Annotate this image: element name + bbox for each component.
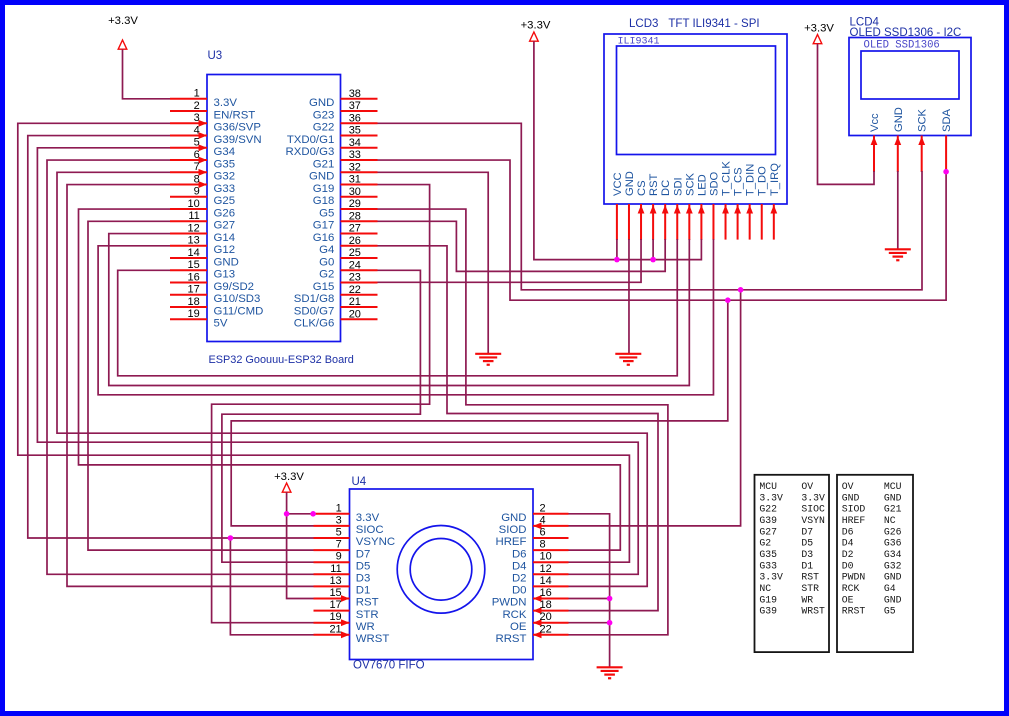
svg-text:D6: D6 <box>512 548 527 560</box>
svg-text:SIOD: SIOD <box>842 504 866 515</box>
svg-text:GND: GND <box>501 512 526 524</box>
svg-text:G19: G19 <box>313 183 335 195</box>
svg-text:G5: G5 <box>884 606 896 617</box>
svg-text:31: 31 <box>349 174 361 186</box>
svg-text:OV7670 FIFO: OV7670 FIFO <box>353 660 425 672</box>
svg-text:23: 23 <box>349 272 361 284</box>
svg-text:6: 6 <box>540 527 546 539</box>
U3 pin 18 G11/CMD <box>170 296 263 317</box>
svg-text:G27: G27 <box>214 220 236 232</box>
svg-text:36: 36 <box>349 112 361 124</box>
U3 pin 16 G9/SD2 <box>170 271 254 292</box>
svg-text:2: 2 <box>194 100 200 112</box>
svg-text:13: 13 <box>188 235 200 247</box>
U4 pin 20 OE <box>510 611 568 633</box>
wire G35 (U3 pin6) to U4 D3 <box>47 160 314 574</box>
U4 pin 7 D7 <box>314 539 371 561</box>
U3 pin 9 G25 <box>170 186 235 207</box>
svg-text:12: 12 <box>540 563 552 575</box>
svg-text:G17: G17 <box>313 220 335 232</box>
wire U3 pin32 GND to ground <box>378 172 489 353</box>
svg-text:SD0/G7: SD0/G7 <box>294 305 335 317</box>
svg-text:6: 6 <box>194 149 200 161</box>
U3 pin 25 G0 <box>319 247 377 268</box>
svg-text:RXD0/G3: RXD0/G3 <box>286 146 335 158</box>
U3 pin 11 G27 <box>170 210 235 231</box>
svg-text:DC: DC <box>660 180 672 196</box>
svg-text:3: 3 <box>194 112 200 124</box>
svg-text:30: 30 <box>349 186 361 198</box>
svg-text:G33: G33 <box>759 560 777 571</box>
junction rail at LCD3 RST <box>650 257 656 263</box>
svg-text:G10/SD3: G10/SD3 <box>214 293 261 305</box>
LCD3 reference designator and title <box>629 18 760 30</box>
LCD3 pin DC <box>660 180 672 240</box>
svg-text:NC: NC <box>759 583 771 594</box>
LCD3 pin LED <box>696 174 708 240</box>
ground symbol (LCD3 GND) <box>615 354 641 365</box>
svg-text:GND: GND <box>624 171 636 196</box>
U3 pin 6 G35 <box>170 149 235 170</box>
svg-text:RCK: RCK <box>842 583 860 594</box>
wire G13 (U3 pin15) to LCD3 SDI <box>118 239 678 376</box>
power symbol +3.3V (LCD4 rail) <box>804 23 834 44</box>
svg-text:MCU: MCU <box>759 481 777 492</box>
svg-text:33: 33 <box>349 149 361 161</box>
U4 value label OV7670 FIFO <box>353 660 425 672</box>
svg-text:G33: G33 <box>214 183 236 195</box>
svg-text:WRST: WRST <box>356 633 390 645</box>
svg-text:D3: D3 <box>801 549 813 560</box>
U4 pin 12 D2 <box>512 563 569 585</box>
U3 pin 27 G16 <box>313 223 378 244</box>
svg-text:26: 26 <box>349 235 361 247</box>
wire +3.3V to U3 pin 1 <box>123 49 171 99</box>
svg-text:GND: GND <box>214 256 239 268</box>
svg-text:18: 18 <box>540 599 552 611</box>
svg-text:Vcc: Vcc <box>869 113 881 132</box>
display LCD4 OLED SSD1306 body <box>849 38 971 136</box>
svg-text:22: 22 <box>349 284 361 296</box>
wire G12 (U3 pin13) to LCD3 SDO <box>98 239 713 395</box>
wire G14 (U3 pin12) to LCD3 SCK <box>109 234 690 386</box>
svg-text:WRST: WRST <box>801 606 825 617</box>
svg-text:G13: G13 <box>214 269 236 281</box>
U4 pin 15 RST <box>314 587 379 609</box>
svg-text:3.3V: 3.3V <box>801 492 825 503</box>
wire G19 (U3 pin31) to U4 WR <box>212 185 430 623</box>
wire G22 (U3 pin36) to LCD4 SCK <box>378 123 923 289</box>
svg-text:RST: RST <box>648 173 660 196</box>
svg-text:+3.3V: +3.3V <box>108 15 138 27</box>
U4 pin 14 D0 <box>512 575 569 597</box>
svg-text:MCU: MCU <box>884 481 902 492</box>
U3 pin 26 G4 <box>319 235 377 256</box>
U4 pin 11 D3 <box>314 563 371 585</box>
LCD3 footprint label ILI9341 <box>618 37 660 48</box>
svg-text:D3: D3 <box>356 573 371 585</box>
svg-text:3.3V: 3.3V <box>759 572 783 583</box>
svg-text:20: 20 <box>349 308 361 320</box>
svg-text:OV: OV <box>842 481 854 492</box>
svg-text:5: 5 <box>336 527 342 539</box>
U3 pin 38 GND <box>309 88 378 109</box>
LCD3 pin CS <box>636 180 648 240</box>
wire G17 (U3 pin28) to LCD3 DC <box>378 221 666 271</box>
svg-text:G4: G4 <box>884 583 896 594</box>
svg-text:G39: G39 <box>759 606 777 617</box>
svg-text:G21: G21 <box>884 504 902 515</box>
svg-text:RST: RST <box>356 597 379 609</box>
U3 pin 17 G10/SD3 <box>170 284 260 305</box>
svg-text:OE: OE <box>842 594 854 605</box>
LCD4 pin SCK <box>917 108 929 172</box>
svg-text:PWDN: PWDN <box>842 572 866 583</box>
wire LCD3 VCC stub to rail <box>616 239 618 260</box>
svg-text:12: 12 <box>188 222 200 234</box>
svg-text:GND: GND <box>309 97 334 109</box>
junction U4 pin1 stub <box>310 511 316 517</box>
wire G32 (U3 pin7) to U4 D0 <box>57 172 647 586</box>
U3 value label ESP32 Goouuu-ESP32 Board <box>209 354 354 366</box>
U4 pin 6 HREF <box>495 527 568 549</box>
svg-text:G34: G34 <box>884 549 902 560</box>
svg-text:29: 29 <box>349 198 361 210</box>
U4 pin 19 WR <box>314 611 375 633</box>
LCD4 reference designator and title <box>850 17 962 40</box>
U3 pin 19 5V <box>170 308 228 329</box>
svg-text:32: 32 <box>349 161 361 173</box>
U3 pin 14 GND <box>170 247 239 268</box>
U4 pin 16 PWDN <box>492 587 569 609</box>
U4 pin 18 RCK <box>502 599 568 621</box>
svg-text:19: 19 <box>188 308 200 320</box>
svg-text:U3: U3 <box>208 50 223 62</box>
svg-text:17: 17 <box>188 284 200 296</box>
svg-text:G39: G39 <box>759 515 777 526</box>
svg-text:RRST: RRST <box>495 633 526 645</box>
svg-text:SIOC: SIOC <box>356 524 384 536</box>
svg-text:D1: D1 <box>356 585 371 597</box>
LCD3 pin SDI <box>672 177 684 240</box>
svg-text:GND: GND <box>884 492 902 503</box>
wire G15 (U3 pin23) to LCD3 CS <box>378 239 642 282</box>
svg-text:21: 21 <box>349 296 361 308</box>
wire +3.3V to U4 3.3V and RST <box>287 492 314 598</box>
svg-text:U4: U4 <box>352 476 367 488</box>
svg-text:27: 27 <box>349 223 361 235</box>
ground symbol (U3 GND) <box>475 354 501 365</box>
svg-text:2: 2 <box>540 502 546 514</box>
junction G21 line to SIOC <box>725 297 731 303</box>
LCD4 pin GND <box>893 107 905 172</box>
U3 pin 5 G34 <box>170 137 235 158</box>
svg-text:13: 13 <box>329 575 341 587</box>
svg-text:G27: G27 <box>759 526 777 537</box>
svg-text:CS: CS <box>636 180 648 196</box>
LCD4 pin SDA <box>941 108 953 171</box>
svg-text:SDO: SDO <box>708 171 720 196</box>
svg-text:D7: D7 <box>356 548 371 560</box>
svg-text:19: 19 <box>329 611 341 623</box>
svg-text:D6: D6 <box>842 526 854 537</box>
wire LCD4 GND to ground <box>897 171 899 249</box>
svg-text:8: 8 <box>540 539 546 551</box>
svg-text:VSYN: VSYN <box>801 515 825 526</box>
svg-text:G39/SVN: G39/SVN <box>214 134 262 146</box>
svg-text:PWDN: PWDN <box>492 597 527 609</box>
svg-text:G4: G4 <box>319 244 334 256</box>
svg-text:G35: G35 <box>759 549 777 560</box>
U3 pin 13 G12 <box>170 235 235 256</box>
svg-text:T_CS: T_CS <box>733 167 745 196</box>
svg-text:1: 1 <box>336 502 342 514</box>
U3 pin 21 SD0/G7 <box>294 296 378 317</box>
svg-text:G12: G12 <box>214 244 236 256</box>
svg-text:SDI: SDI <box>672 177 684 196</box>
U3 pin 2 EN/RST <box>170 100 255 121</box>
svg-text:G19: G19 <box>759 594 777 605</box>
svg-text:25: 25 <box>349 247 361 259</box>
wire G5 (U3 pin29) to U4 RRST <box>378 209 668 635</box>
wire G21 (U3 pin33) to LCD4 SDA <box>378 160 947 300</box>
table OV-MCU pin map (right) <box>837 475 913 652</box>
svg-text:3.3V: 3.3V <box>214 97 238 109</box>
LCD3 pin SCK <box>684 172 696 240</box>
U3 pin 29 G5 <box>319 198 377 219</box>
U4 camera lens circles <box>397 526 485 614</box>
svg-text:ILI9341: ILI9341 <box>618 37 660 48</box>
svg-text:G18: G18 <box>313 195 335 207</box>
wire LCD3 GND to ground <box>628 239 630 354</box>
svg-text:HREF: HREF <box>495 536 526 548</box>
svg-text:G32: G32 <box>884 560 902 571</box>
svg-text:EN/RST: EN/RST <box>214 109 256 121</box>
wire branch G39 to U4 WRST <box>230 538 313 635</box>
LCD4 footprint label OLED SSD1306 <box>864 40 940 52</box>
svg-text:35: 35 <box>349 125 361 137</box>
svg-text:SD1/G8: SD1/G8 <box>294 293 335 305</box>
U4 pin 22 RRST <box>495 623 568 645</box>
svg-text:15: 15 <box>188 259 200 271</box>
U4 pin 2 GND <box>501 502 568 524</box>
svg-text:GND: GND <box>884 594 902 605</box>
U4 pin 17 STR <box>314 599 379 621</box>
svg-text:G21: G21 <box>313 158 335 170</box>
svg-text:OLED SSD1306: OLED SSD1306 <box>864 40 940 52</box>
svg-text:G34: G34 <box>214 146 236 158</box>
U3 pin 36 G22 <box>313 112 378 133</box>
svg-text:SCK: SCK <box>917 108 929 132</box>
svg-text:ESP32 Goouuu-ESP32 Board: ESP32 Goouuu-ESP32 Board <box>209 354 354 366</box>
svg-text:1: 1 <box>194 88 200 100</box>
svg-text:10: 10 <box>188 198 200 210</box>
U4 pin 3 SIOC <box>314 514 384 536</box>
U3 pin 33 G21 <box>313 149 378 170</box>
svg-text:D0: D0 <box>512 585 527 597</box>
wire G33 (U3 pin8) to U4 D1 <box>67 185 314 587</box>
svg-text:T_DO: T_DO <box>757 166 769 196</box>
svg-text:11: 11 <box>188 210 199 222</box>
svg-text:G14: G14 <box>214 232 236 244</box>
junction GND at OE <box>607 620 613 626</box>
wire G4 (U3 pin26) to U4 RCK <box>378 246 659 611</box>
svg-text:NC: NC <box>884 515 896 526</box>
svg-text:G2: G2 <box>319 269 334 281</box>
svg-text:D5: D5 <box>801 538 813 549</box>
junction G22 line to SIOD <box>738 287 744 293</box>
U4 pin 9 D5 <box>314 551 371 573</box>
svg-text:STR: STR <box>801 583 819 594</box>
svg-text:OLED SSD1306 - I2C: OLED SSD1306 - I2C <box>850 27 962 39</box>
svg-text:TFT ILI9341 - SPI: TFT ILI9341 - SPI <box>668 18 759 30</box>
U3 pin 20 CLK/G6 <box>294 308 378 329</box>
power symbol +3.3V (LCD3 rail) <box>521 20 551 42</box>
svg-text:11: 11 <box>330 563 341 575</box>
junction G39/VSYN/WRST <box>228 535 234 541</box>
U4 pin 10 D4 <box>512 551 569 573</box>
LCD4 pin Vcc <box>869 113 881 172</box>
LCD3 pin GND <box>624 171 636 240</box>
svg-text:24: 24 <box>349 259 361 271</box>
svg-text:G23: G23 <box>313 109 335 121</box>
svg-text:G36: G36 <box>884 538 902 549</box>
svg-text:20: 20 <box>540 611 552 623</box>
svg-text:22: 22 <box>540 623 552 635</box>
svg-text:4: 4 <box>194 124 200 136</box>
svg-text:4: 4 <box>540 514 546 526</box>
svg-text:RRST: RRST <box>842 606 866 617</box>
LCD3 pin T_DIN <box>745 164 757 240</box>
svg-text:G16: G16 <box>313 232 335 244</box>
junction LCD4 SDA <box>943 169 949 175</box>
svg-text:16: 16 <box>188 271 200 283</box>
power symbol +3.3V (U4 rail) <box>274 471 304 492</box>
LCD3 pin T_CLK <box>721 161 733 240</box>
junction GND at PWDN <box>607 596 613 602</box>
svg-text:G15: G15 <box>313 281 335 293</box>
svg-text:G9/SD2: G9/SD2 <box>214 281 255 293</box>
U4 pin 1 3.3V <box>314 502 380 524</box>
U3 pin 30 G18 <box>313 186 378 207</box>
svg-text:VCC: VCC <box>612 172 624 196</box>
svg-text:RST: RST <box>801 572 819 583</box>
LCD3 pin SDO <box>708 171 720 240</box>
svg-text:37: 37 <box>349 100 361 112</box>
svg-text:D7: D7 <box>801 526 813 537</box>
U3 pin 32 GND <box>309 161 378 182</box>
svg-text:LED: LED <box>696 174 708 196</box>
LCD3 pin RST <box>648 173 660 240</box>
svg-text:TXD0/G1: TXD0/G1 <box>287 134 334 146</box>
U3 pin 22 SD1/G8 <box>294 284 378 305</box>
wire G2 (U3 pin24) to U4 D5 <box>222 270 421 562</box>
svg-text:17: 17 <box>329 599 341 611</box>
svg-text:5V: 5V <box>214 318 228 330</box>
U3 pin 12 G14 <box>170 222 235 243</box>
svg-text:9: 9 <box>194 186 200 198</box>
U3 pin 1 3.3V <box>170 88 237 109</box>
U3 pin 35 TXD0/G1 <box>287 125 378 146</box>
svg-text:34: 34 <box>349 137 361 149</box>
IC U3 ESP32 module body <box>207 75 341 342</box>
svg-text:G26: G26 <box>214 207 236 219</box>
svg-text:+3.3V: +3.3V <box>804 23 834 35</box>
wire branch G21 line to U4 SIOC <box>231 300 728 526</box>
svg-text:VSYNC: VSYNC <box>356 536 395 548</box>
svg-text:38: 38 <box>349 88 361 100</box>
svg-text:14: 14 <box>540 575 552 587</box>
svg-text:21: 21 <box>329 623 341 635</box>
wire G39 (U3 pin4) to U4 VSYNC <box>28 136 314 538</box>
U3 pin 23 G15 <box>313 272 378 293</box>
svg-text:STR: STR <box>356 609 379 621</box>
U3 pin 31 G19 <box>313 174 378 195</box>
svg-text:14: 14 <box>188 247 200 259</box>
U3 pin 24 G2 <box>319 259 377 280</box>
wire branch G22 line to U4 SIOD <box>569 290 741 526</box>
display LCD3 TFT ILI9341 body <box>604 34 787 204</box>
svg-text:SIOD: SIOD <box>499 524 527 536</box>
junction U4 3.3V rail <box>284 511 290 517</box>
svg-text:+3.3V: +3.3V <box>521 20 551 32</box>
U3 pin 4 G39/SVN <box>170 124 262 145</box>
U3 pin 7 G32 <box>170 161 235 182</box>
svg-text:G22: G22 <box>313 122 335 134</box>
svg-text:WR: WR <box>356 621 375 633</box>
svg-text:G5: G5 <box>319 207 334 219</box>
svg-text:3.3V: 3.3V <box>356 512 380 524</box>
svg-text:16: 16 <box>540 587 552 599</box>
LCD3 pin T_IRQ <box>769 163 781 240</box>
svg-text:D4: D4 <box>512 560 527 572</box>
svg-text:G35: G35 <box>214 158 236 170</box>
svg-text:G11/CMD: G11/CMD <box>214 305 264 317</box>
U4 reference designator <box>352 476 367 488</box>
svg-text:7: 7 <box>336 539 342 551</box>
svg-text:5: 5 <box>194 137 200 149</box>
svg-text:LCD3: LCD3 <box>629 18 658 30</box>
svg-text:GND: GND <box>893 107 905 132</box>
U4 pin 4 SIOD <box>499 514 569 536</box>
svg-text:GND: GND <box>884 572 902 583</box>
wire LCD3 RST stub to rail <box>652 239 654 260</box>
ground symbol (U4 GND) <box>597 667 623 678</box>
table MCU-OV pin map (left) <box>755 475 830 652</box>
svg-text:G22: G22 <box>759 504 777 515</box>
svg-text:RCK: RCK <box>502 609 526 621</box>
svg-text:+3.3V: +3.3V <box>274 471 304 483</box>
U3 pin 28 G17 <box>313 210 378 231</box>
U4 pin 21 WRST <box>314 623 390 645</box>
U4 pin 13 D1 <box>314 575 371 597</box>
U3 pin 15 G13 <box>170 259 235 280</box>
svg-text:SIOC: SIOC <box>801 504 825 515</box>
wire G26 (U3 pin10) to U4 D6 <box>79 209 621 550</box>
svg-text:SDA: SDA <box>941 108 953 132</box>
svg-text:9: 9 <box>336 551 342 563</box>
svg-text:10: 10 <box>540 551 552 563</box>
svg-text:GND: GND <box>309 171 334 183</box>
wire U4 GND net to ground (with PWDN, OE branches) <box>569 514 610 668</box>
U3 pin 3 G36/SVP <box>170 112 261 133</box>
svg-text:3: 3 <box>336 514 342 526</box>
svg-text:D2: D2 <box>842 549 854 560</box>
U3 pin 10 G26 <box>170 198 235 219</box>
svg-text:T_CLK: T_CLK <box>721 161 733 196</box>
U3 pin 37 G23 <box>313 100 378 121</box>
ground symbol (LCD4 GND) <box>885 249 911 260</box>
